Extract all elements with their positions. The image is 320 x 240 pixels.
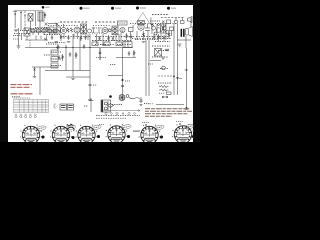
tube V3 detector	[102, 28, 108, 34]
wire x122 drop	[122, 48, 124, 100]
resistor R7	[126, 33, 128, 40]
dial cord pulley 6	[134, 113, 136, 115]
component leads output row	[148, 26, 166, 40]
value labels under v47	[46, 43, 58, 45]
service note line 2	[145, 110, 192, 112]
tube type labels det	[95, 21, 116, 23]
trimmer antenna top	[44, 13, 46, 19]
value labels converter	[31, 31, 47, 33]
wire B minus bus	[156, 96, 188, 110]
socket V3 index dot	[97, 135, 100, 138]
service note line 1	[145, 108, 190, 110]
wire screen bus	[89, 34, 91, 99]
capacitor C14	[163, 35, 165, 41]
value labels right col	[155, 41, 170, 43]
resistor group R13	[116, 42, 122, 46]
wire y47 mid bus	[90, 47, 133, 49]
volume pot drop	[34, 72, 36, 76]
oscillator coil L2	[24, 28, 30, 36]
dial cord text row 2	[96, 117, 126, 119]
capacitor C7	[98, 36, 100, 41]
resistor group R11	[92, 42, 98, 46]
value labels mid right of pots	[95, 44, 114, 46]
value labels volume	[44, 54, 54, 56]
trimmer location circle 5	[34, 114, 36, 118]
switch box right	[181, 21, 185, 24]
output transformer T4 core bar left	[181, 29, 183, 37]
tube label oval V2	[65, 124, 76, 130]
value labels audio coupling	[124, 36, 134, 38]
value labels det row	[95, 36, 133, 38]
ground screen bus	[88, 100, 92, 101]
interstage parts B	[145, 24, 150, 31]
wire dashed GRN	[158, 75, 175, 77]
value labels left stack top	[51, 51, 62, 53]
value labels RF section	[30, 28, 48, 30]
table caption	[14, 97, 31, 99]
resistor R15	[168, 31, 170, 39]
twisted pair pictorial	[108, 104, 114, 108]
resistor R20	[165, 49, 169, 51]
label smudge output right	[135, 39, 158, 41]
socket V5 index dot	[160, 135, 163, 138]
resistor R4	[60, 34, 62, 41]
scan background border	[0, 0, 200, 142]
antenna transformer T1	[38, 12, 44, 27]
dial cord pulley 3	[116, 112, 118, 114]
label near det drop	[96, 57, 106, 59]
wire loop lead	[24, 11, 26, 30]
stamp block A	[60, 104, 66, 110]
resistor R2	[67, 28, 69, 33]
tube type labels IF	[60, 21, 88, 23]
label above V5 socket	[142, 122, 149, 124]
value labels right cluster	[152, 45, 170, 47]
resistor R16	[133, 50, 135, 57]
table cell text	[15, 101, 48, 111]
key mark V5	[145, 124, 147, 126]
wire grid bus y77	[66, 76, 90, 78]
filter capacitor C11	[156, 28, 161, 33]
schematic paper sheet	[8, 5, 193, 142]
wire det plate drop	[96, 34, 98, 44]
trimmer location circle 2	[20, 114, 22, 118]
resistor R17	[62, 54, 64, 61]
component leads det row	[94, 27, 122, 41]
socket V6 index dot	[192, 135, 195, 138]
value labels output top	[152, 14, 168, 16]
osc padder box low	[51, 63, 58, 68]
resistor R6	[108, 35, 110, 42]
dial cord pulley 5	[128, 112, 130, 114]
capacitor C17	[69, 52, 71, 57]
capacitor C13	[153, 34, 155, 40]
socket V4 index dot	[127, 135, 130, 138]
bullet marker 2	[111, 7, 121, 10]
wire det output drop	[99, 48, 101, 60]
component cluster detector load	[123, 42, 132, 48]
note label 60c	[84, 105, 88, 107]
service note line 3	[145, 113, 188, 115]
dial cord text row	[96, 115, 140, 117]
capacitor on riser	[121, 86, 124, 87]
component leads RF row	[36, 36, 47, 41]
tube V1 converter	[61, 24, 67, 34]
dial cord pointer line A	[135, 13, 144, 26]
node dot output	[151, 24, 153, 26]
interstage parts A	[129, 25, 134, 37]
pilot lamp	[162, 66, 166, 70]
tube label oval V1	[35, 125, 46, 131]
value labels left stack low	[51, 65, 62, 67]
capacitor C1 trimmer	[45, 23, 48, 26]
dial cord pulley 2	[111, 113, 113, 115]
wire cluster drop	[156, 24, 158, 33]
wire det cathode drop	[102, 34, 104, 44]
resistor R14	[158, 34, 160, 41]
wire x73 cathode drop	[72, 34, 74, 77]
resistor R1	[14, 30, 18, 32]
bullet marker 4	[167, 7, 176, 10]
wire mid link y57	[116, 57, 136, 59]
wire y67 volume	[32, 66, 58, 68]
socket label text DET	[133, 131, 139, 132]
website url line 2	[11, 86, 31, 88]
battery plug box	[101, 100, 111, 112]
wire audio bus y71	[45, 70, 90, 72]
tuning gang C3	[48, 23, 59, 26]
tube V2 socket dot	[88, 29, 92, 33]
ground loop return	[17, 46, 21, 48]
bullet marker 1b	[80, 7, 90, 10]
label smudge audio out row	[130, 23, 176, 25]
output transformer T4 core bar right	[183, 29, 185, 37]
IF transformer T3	[112, 26, 118, 35]
wire ant secondary	[21, 34, 23, 40]
capacitor C4	[51, 35, 53, 40]
wire battery drop	[89, 98, 94, 112]
trimmer location circle 1	[15, 114, 17, 118]
value labels RF top	[35, 27, 48, 29]
polarity mark A	[152, 25, 154, 27]
loop antenna L1	[28, 14, 33, 31]
ground mid	[71, 79, 75, 80]
ground detector	[102, 45, 106, 46]
wire audio grid drop	[118, 34, 120, 42]
wire loop return	[18, 28, 20, 46]
diode circle detector	[109, 29, 112, 32]
trimmer location circle 3	[25, 114, 27, 118]
tube label oval V3	[90, 124, 101, 130]
value labels bottom filter	[158, 82, 172, 84]
component labels row above det	[93, 25, 111, 27]
IF transformer T2	[81, 24, 87, 34]
wire x66 drop	[65, 45, 67, 71]
value labels left stack mid	[51, 58, 62, 60]
trimmer location circle 4	[29, 114, 31, 118]
value labels right of plug	[144, 103, 150, 105]
capacitor line filter	[140, 97, 143, 103]
label mid left	[110, 64, 116, 66]
resistor R5	[80, 35, 82, 41]
coil curl	[176, 77, 182, 79]
dial cord pulley 4	[122, 113, 124, 115]
value labels audio row	[136, 36, 170, 38]
wire output stage left	[173, 24, 175, 95]
component labels row above IF	[48, 25, 78, 27]
service note line 4	[145, 115, 172, 117]
value labels antenna	[20, 30, 29, 32]
label above V3 socket	[99, 124, 104, 126]
component leads IF row	[64, 33, 88, 40]
electrolytic can A	[154, 32, 157, 35]
value labels IF row	[60, 36, 90, 38]
email line	[11, 93, 34, 95]
label box 2ND IF	[118, 21, 128, 25]
value labels osc	[44, 34, 60, 36]
node dots on AVC bus	[56, 47, 90, 48]
label smudge under out row	[132, 38, 172, 40]
label mid right	[148, 63, 153, 65]
tube socket V2 bottom view	[50, 125, 72, 144]
wire output stage right	[177, 24, 179, 95]
filter capacitor C12	[162, 26, 166, 30]
tube chart table	[14, 100, 49, 113]
value labels filter	[152, 56, 168, 58]
stamp block B	[67, 104, 73, 110]
label smudge det mid	[92, 27, 102, 29]
wire top bus	[15, 10, 43, 12]
trimmer X right	[162, 21, 165, 24]
value labels mid row	[92, 40, 132, 42]
ground line filter	[140, 105, 143, 106]
wire y75 branch	[108, 75, 123, 77]
value labels IF2 area	[107, 28, 112, 30]
coupling capacitor C16	[58, 55, 60, 60]
value labels det area	[92, 32, 103, 34]
wire twin lead left	[145, 40, 147, 96]
coil L3	[49, 27, 54, 33]
capacitor C5	[67, 35, 69, 40]
wire V1 grid drop	[20, 11, 22, 30]
tube V2 IF amp	[74, 27, 80, 33]
value labels left band	[14, 33, 30, 35]
wire AVC bus left	[25, 47, 90, 49]
wire jack stub	[175, 18, 177, 21]
bullet marker 3	[136, 7, 146, 10]
note to handle label	[146, 103, 154, 105]
antenna ANT	[13, 11, 17, 28]
osc padder box mid	[51, 57, 58, 62]
node junction dot	[122, 79, 124, 81]
ground IF cathode	[67, 42, 70, 43]
capacitor C6	[84, 35, 86, 40]
value labels under det	[117, 44, 131, 46]
filter capacitor C10	[152, 26, 156, 30]
node dot pair B	[177, 78, 179, 80]
rectifier cluster	[155, 49, 162, 57]
coupling box above V5	[138, 21, 145, 25]
ground volume	[33, 77, 36, 78]
bullet marker 1	[42, 6, 50, 9]
label antenna coil	[13, 35, 21, 37]
polarity mark B	[158, 24, 160, 26]
wire top right link	[150, 18, 152, 25]
coil L4	[56, 27, 61, 33]
label row under IF tubes	[48, 42, 66, 44]
dial cord pointer line B	[143, 13, 151, 26]
wire output grid drop	[136, 31, 138, 40]
wire x40 drop	[39, 67, 41, 95]
resistor R19	[75, 52, 77, 59]
capacitor C15	[128, 51, 130, 56]
speaker SP frame	[186, 27, 193, 37]
wire osc coil drop	[29, 40, 31, 48]
wire osc grid riser	[56, 24, 58, 28]
band switch S1 chain	[30, 30, 60, 36]
tube V4 audio	[120, 27, 125, 32]
capacitor C9	[130, 34, 132, 40]
node dot pair A	[173, 76, 175, 78]
arrow symbol	[162, 96, 168, 98]
value labels B bus	[160, 68, 168, 70]
wire osc section drop	[35, 11, 37, 26]
key mark V6	[179, 123, 181, 125]
wire left coil tail	[26, 36, 28, 40]
wire twin lead right	[148, 40, 150, 96]
resistor group R12	[104, 42, 110, 46]
power plug P1	[119, 95, 129, 101]
value labels near plug	[112, 104, 122, 106]
tube socket V5 bottom view	[139, 125, 161, 144]
capacitor C2 trimmer	[46, 27, 49, 30]
wire cord	[129, 98, 140, 99]
label screen bypass	[93, 84, 97, 86]
wire switch stub	[181, 18, 183, 21]
website url line 1	[11, 84, 33, 86]
ground output	[178, 44, 182, 46]
resistor R8	[143, 31, 145, 40]
ground converter cathode	[55, 42, 59, 44]
value labels output mid	[150, 20, 160, 22]
tube V5 output	[138, 24, 144, 30]
electrolytic can B	[166, 30, 169, 33]
electrolytic pictorial	[67, 124, 74, 131]
osc padder box top	[51, 50, 58, 55]
tube socket V3 bottom view	[76, 125, 98, 144]
tube label oval V4	[120, 124, 131, 130]
potentiometer R9 volume	[34, 67, 36, 72]
wire tone drop	[190, 18, 192, 27]
ground rectifier	[161, 57, 165, 59]
capacitor C8	[112, 36, 114, 41]
speaker jack	[188, 17, 193, 23]
label near riser	[125, 80, 130, 82]
tube label oval V6	[184, 123, 194, 129]
text smudge rows (schematic value labels)	[12, 15, 176, 107]
value labels above table	[12, 96, 20, 98]
wire x80 drop	[79, 38, 81, 71]
dial cord pulley 1	[105, 112, 107, 114]
label above V6 socket	[176, 121, 183, 123]
label ant value	[13, 38, 19, 40]
tube socket V4 bottom view	[106, 124, 128, 143]
choke coil L5	[161, 24, 167, 33]
ground output cathode	[142, 42, 145, 43]
interstage parts C	[170, 27, 174, 36]
wire band switch	[25, 39, 48, 41]
tube label oval V5	[153, 124, 164, 130]
node power dot	[109, 95, 112, 98]
resistor R18	[57, 44, 59, 51]
phono jack circle	[174, 20, 178, 24]
capacitor screen bypass	[89, 84, 92, 85]
socket V2 index dot	[71, 136, 74, 139]
wire mid link y61	[150, 60, 161, 62]
value labels 50C5	[158, 50, 170, 52]
dial cord diagram line	[102, 110, 140, 112]
resistor R3	[71, 28, 73, 33]
note bracket 52	[54, 104, 58, 108]
wire dashed top right	[161, 17, 185, 19]
tube socket V6 bottom view	[172, 124, 194, 143]
small box tone	[167, 20, 171, 24]
capacitor C18	[83, 44, 85, 49]
wire speaker return	[177, 36, 191, 96]
resistor stack R22	[159, 86, 171, 95]
trimmer X osc	[44, 38, 47, 41]
tube socket V1 bottom view	[20, 125, 42, 144]
socket V1 index dot	[41, 135, 44, 138]
